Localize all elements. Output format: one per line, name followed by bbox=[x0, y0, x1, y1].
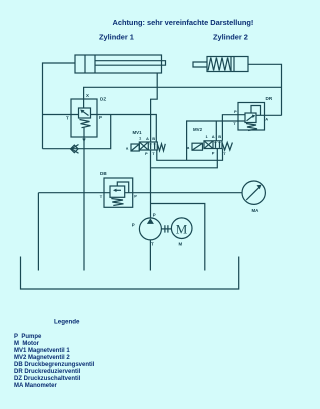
wire DZ drain to tank bbox=[83, 127, 85, 271]
svg-text:T: T bbox=[151, 242, 154, 247]
svg-text:P: P bbox=[134, 193, 137, 198]
svg-text:A: A bbox=[212, 134, 215, 139]
svg-text:A: A bbox=[265, 116, 268, 121]
tank bbox=[21, 257, 239, 290]
DB pilot loop bbox=[117, 182, 128, 193]
valve DZ spring bbox=[80, 120, 91, 128]
solenoid MV1 bbox=[131, 144, 139, 151]
svg-text:M: M bbox=[179, 242, 183, 247]
cylinder 2 bbox=[193, 57, 248, 72]
svg-text:DZ Druckzuschaltventil: DZ Druckzuschaltventil bbox=[14, 376, 81, 382]
svg-text:M: M bbox=[176, 221, 188, 236]
svg-text:P: P bbox=[153, 213, 156, 218]
svg-text:Zylinder 1: Zylinder 1 bbox=[99, 33, 134, 42]
valve MV2 bbox=[187, 127, 232, 156]
svg-text:Zylinder 2: Zylinder 2 bbox=[213, 33, 248, 42]
svg-text:MV1 Magnetventil 1: MV1 Magnetventil 1 bbox=[14, 348, 70, 354]
MV2 spring bbox=[222, 143, 232, 151]
wire left tank drop bbox=[37, 193, 39, 271]
svg-text:DZ: DZ bbox=[100, 97, 106, 102]
DR spring bbox=[246, 124, 257, 131]
wire pressure-tank line y203.5 bbox=[151, 204, 205, 271]
svg-text:Achtung: sehr vereinfachte Dar: Achtung: sehr vereinfachte Darstellung! bbox=[113, 18, 254, 27]
MV2 body bbox=[204, 141, 222, 149]
wire check-valve branch y148.7 bbox=[43, 115, 111, 149]
wire drain arrowhead bbox=[82, 139, 85, 143]
valve DR bbox=[233, 96, 273, 131]
valve DB bbox=[100, 171, 138, 207]
wire DR P input from MV2 B bbox=[222, 115, 245, 141]
DB spring bbox=[111, 199, 123, 206]
svg-text:M Motor: M Motor bbox=[14, 341, 40, 347]
svg-text:MV2 Magnetventil 2: MV2 Magnetventil 2 bbox=[14, 355, 70, 361]
svg-text:DR: DR bbox=[266, 96, 273, 101]
svg-text:DR Druckreduzierventil: DR Druckreduzierventil bbox=[14, 369, 81, 375]
solenoid MV2 bbox=[192, 143, 203, 150]
DR inner square bbox=[245, 113, 256, 123]
wire T-bus y160.3 bbox=[157, 149, 223, 161]
svg-text:A: A bbox=[146, 136, 149, 141]
svg-text:DB: DB bbox=[100, 171, 107, 176]
svg-text:MV2: MV2 bbox=[193, 127, 203, 132]
wire main pressure line pump to MV1 P bbox=[150, 150, 152, 218]
svg-text:P: P bbox=[132, 223, 135, 228]
wire MV2 A up to DR T line bbox=[215, 121, 217, 141]
MV1 body bbox=[139, 142, 157, 150]
wire DB-manometer line y192.7 bbox=[38, 192, 242, 194]
wire DR T line to T-bus bbox=[187, 121, 245, 160]
cylinder 1 bbox=[75, 55, 166, 73]
svg-text:MV1: MV1 bbox=[133, 130, 143, 135]
valve DZ arrow bbox=[82, 111, 89, 116]
svg-text:T: T bbox=[66, 116, 69, 121]
svg-text:P: P bbox=[99, 115, 102, 120]
wire cylinder2 feed vertical bbox=[248, 64, 282, 115]
DR pilot loop bbox=[251, 106, 261, 116]
svg-text:B: B bbox=[152, 136, 155, 141]
wire cylinder1 cap feed bbox=[43, 63, 76, 149]
valve DZ inner square bbox=[79, 108, 91, 118]
valve DZ box bbox=[71, 99, 97, 137]
svg-text:MA: MA bbox=[252, 208, 260, 213]
wire pilot bus y87.3 bbox=[84, 87, 282, 108]
svg-text:B: B bbox=[218, 134, 221, 139]
valve MV1 bbox=[126, 130, 165, 156]
MV1 spring bbox=[157, 144, 165, 151]
svg-text:X: X bbox=[86, 93, 89, 98]
wire DR A output bbox=[256, 114, 282, 116]
pump P1 bbox=[132, 213, 162, 247]
svg-text:P: P bbox=[234, 109, 237, 114]
legend items bbox=[14, 334, 95, 389]
svg-text:DB Druckbegrenzungsventil: DB Druckbegrenzungsventil bbox=[14, 362, 95, 368]
svg-text:P: P bbox=[212, 151, 215, 156]
svg-text:MA Manometer: MA Manometer bbox=[14, 383, 57, 389]
svg-text:Legende: Legende bbox=[54, 319, 80, 326]
wire pump suction to tank bbox=[149, 240, 151, 271]
DB inner square bbox=[110, 186, 125, 197]
coupling shaft bbox=[161, 225, 171, 232]
wire cylinder1 rod-end to MV1 A bbox=[151, 73, 158, 142]
svg-text:P Pumpe: P Pumpe bbox=[14, 334, 42, 340]
wire DZ through-line y114.5 bbox=[43, 115, 157, 143]
manometer MA bbox=[242, 181, 265, 213]
motor M bbox=[171, 218, 192, 247]
wire MV2 P branch y167.8 bbox=[151, 149, 218, 168]
svg-text:P: P bbox=[145, 151, 148, 156]
check valve bbox=[71, 145, 79, 154]
